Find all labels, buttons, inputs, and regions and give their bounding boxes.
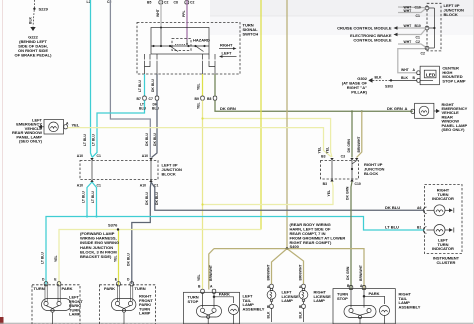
svg-text:C8: C8 (174, 0, 178, 4)
svg-text:DK BLU: DK BLU (155, 192, 159, 205)
svg-text:C10: C10 (415, 5, 421, 9)
svg-text:C3: C3 (341, 155, 345, 159)
faint top-right window band (210, 0, 474, 16)
svg-text:B7: B7 (137, 97, 141, 101)
wire LT BLU block to bus (right) (92, 182, 97, 217)
node yel tail junction (201, 203, 203, 205)
contact rail (151, 45, 209, 47)
svg-text:BLK: BLK (401, 76, 409, 80)
svg-text:LT BLU: LT BLU (41, 252, 45, 264)
svg-text:WHT: WHT (404, 40, 413, 44)
svg-text:C1: C1 (97, 184, 101, 188)
instrument cluster (425, 185, 463, 254)
right I/P junction block (321, 161, 359, 180)
svg-text:LT BLU: LT BLU (82, 191, 86, 203)
svg-text:YEL: YEL (327, 190, 331, 197)
svg-text:BLK: BLK (375, 76, 383, 80)
svg-text:RIGHT: RIGHT (220, 43, 233, 48)
svg-text:INDICATOR: INDICATOR (432, 196, 454, 201)
switch lower contacts (145, 54, 216, 74)
wire DK BLU block to right front lamp (132, 182, 151, 284)
svg-text:LT BLU: LT BLU (83, 134, 87, 146)
svg-text:A10: A10 (77, 154, 83, 158)
svg-text:LAMP: LAMP (139, 311, 151, 316)
svg-text:TURN: TURN (135, 286, 146, 291)
connector C7 (155, 96, 159, 100)
wire WHT row C10 (398, 6, 425, 9)
svg-text:STOP LAMP: STOP LAMP (442, 78, 466, 83)
svg-text:WHT: WHT (156, 8, 160, 17)
bottom-left red mark (0, 317, 4, 324)
wire LT BLU to left junction block (92, 100, 145, 157)
svg-text:STOP: STOP (188, 299, 199, 304)
svg-text:LED: LED (426, 72, 436, 77)
turn signal switch box (137, 23, 240, 75)
connector B9 (201, 96, 205, 100)
svg-text:YEL: YEL (197, 274, 201, 281)
wire DK BLU block to instrument cluster (151, 182, 425, 210)
wire WHT/DK BLU from top to left junction block (110, 0, 150, 158)
svg-text:A6: A6 (417, 206, 421, 210)
svg-text:A10: A10 (140, 184, 146, 188)
wire YEL right front park drop (118, 230, 120, 286)
bottom window edge (0, 322, 474, 324)
svg-text:C2: C2 (190, 0, 194, 4)
svg-text:B3: B3 (323, 182, 327, 186)
wire DK GRN block to right tail lamp (351, 182, 352, 290)
wire DK BLU switch output (156, 74, 158, 96)
svg-text:B5: B5 (147, 0, 151, 4)
svg-text:DK GRN: DK GRN (220, 106, 236, 111)
svg-text:B1: B1 (417, 226, 421, 230)
svg-text:ASSEMBLY: ASSEMBLY (399, 304, 421, 309)
svg-text:HAZARD: HAZARD (193, 38, 210, 43)
node BRN/WHT drop (361, 110, 363, 112)
svg-text:B8: B8 (207, 97, 211, 101)
svg-text:PILLAR): PILLAR) (351, 90, 367, 95)
right emergency vehicle rear window panel lamp (415, 103, 434, 118)
svg-text:DK BLU: DK BLU (145, 192, 149, 205)
left turn indicator bulb (427, 229, 435, 231)
connector at cluster (right turn) (423, 207, 426, 214)
svg-text:PARK: PARK (104, 286, 115, 291)
svg-text:BLK: BLK (298, 311, 302, 319)
svg-text:CRUISE CONTROL MODULE: CRUISE CONTROL MODULE (337, 26, 392, 31)
wire BRN/WHT to right license lamp (287, 249, 304, 284)
svg-text:WHT: WHT (404, 24, 413, 28)
svg-text:A: A (405, 106, 408, 111)
ground G222 (30, 27, 35, 31)
node PPL end (186, 40, 188, 44)
svg-text:C10: C10 (355, 182, 361, 186)
splice S229 dashed lead from top (33, 0, 35, 8)
svg-text:BRN/WHT: BRN/WHT (298, 264, 302, 281)
splice S229 (33, 8, 35, 10)
splice S400 (286, 247, 289, 250)
svg-text:S303: S303 (385, 84, 393, 88)
node bus joints (86, 215, 88, 217)
pin B10 connector (425, 26, 429, 30)
svg-text:A10: A10 (142, 154, 148, 158)
wire BRN/WHT into right junction block (357, 111, 362, 157)
svg-text:TURN: TURN (34, 286, 45, 291)
wire YEL switch output (202, 74, 204, 96)
left page border line (2, 0, 4, 324)
svg-text:DK BLU: DK BLU (151, 79, 155, 92)
svg-text:BRN/WHT: BRN/WHT (266, 264, 270, 281)
svg-text:LEFT: LEFT (222, 51, 233, 56)
wire BLK to ground G222 (33, 10, 34, 27)
wire PPL into switch (186, 0, 188, 40)
wire LT BLU switch output (144, 74, 146, 96)
svg-text:DK BLU: DK BLU (385, 205, 400, 210)
wire YEL front park bus (59, 230, 261, 286)
svg-text:YEL: YEL (114, 255, 118, 262)
svg-text:YEL: YEL (326, 147, 330, 154)
wire BRN/WHT rear park bus (214, 249, 364, 290)
node WHT feed (160, 27, 162, 29)
svg-text:YEL: YEL (318, 147, 322, 154)
wire WHT row C1 upper (398, 9, 425, 13)
svg-text:LT BLU: LT BLU (92, 134, 96, 146)
junction block internal circuits (91, 161, 93, 180)
left I/P junction block (80, 161, 158, 180)
pin C10 connector (425, 6, 429, 10)
svg-text:DK GRN: DK GRN (387, 106, 403, 111)
wire YEL branch to right junction block (203, 119, 333, 158)
svg-text:DK BLU: DK BLU (153, 133, 157, 146)
wire BRN/WHT to left tail lamp (209, 249, 214, 290)
wire LT BLU from top (91, 0, 93, 157)
svg-text:C2: C2 (416, 40, 420, 44)
wire WHT to electronic brake control module (398, 30, 426, 35)
svg-text:OF BRAKE PEDAL): OF BRAKE PEDAL) (15, 53, 53, 58)
svg-text:PPL: PPL (182, 10, 186, 17)
svg-text:C2: C2 (164, 0, 168, 4)
wire DK GRN switch output (214, 74, 216, 96)
svg-text:LAMP: LAMP (282, 298, 294, 303)
connector B8 (213, 96, 217, 100)
connector B7 (143, 96, 147, 100)
connector A of lamp (64, 125, 68, 129)
wire BRN/WHT to left license lamp (272, 249, 288, 284)
wire BRN/WHT vertical from top to S400 (286, 0, 288, 249)
wire DK BLU to left junction block (152, 100, 158, 157)
wire WHT to cruise control module (398, 27, 426, 29)
svg-text:SWITCH: SWITCH (243, 32, 259, 37)
svg-text:S229: S229 (39, 6, 49, 11)
svg-text:BRACKET SIDE): BRACKET SIDE) (80, 254, 112, 259)
svg-text:PARK: PARK (62, 286, 73, 291)
svg-text:YEL: YEL (54, 255, 58, 262)
wire WHT row C2 (398, 44, 425, 47)
wire YEL bright vertical from top (front park feed) (260, 0, 262, 230)
svg-text:DK BLU: DK BLU (145, 133, 149, 146)
svg-text:B3: B3 (321, 155, 325, 159)
svg-text:STOP: STOP (337, 296, 348, 301)
svg-text:C1: C1 (97, 154, 101, 158)
left emergency vehicle rear window panel lamp (44, 120, 64, 135)
right turn indicator bulb (427, 209, 435, 211)
svg-text:C7: C7 (149, 97, 153, 101)
svg-text:INDICATOR: INDICATOR (432, 246, 454, 251)
switch wiper arms (170, 46, 178, 52)
svg-text:DK GRN: DK GRN (346, 186, 350, 200)
svg-text:WHT: WHT (404, 9, 413, 13)
svg-text:(SEO ONLY): (SEO ONLY) (19, 139, 43, 144)
svg-text:LAMP: LAMP (69, 312, 81, 317)
node DK GRN drop 1 (351, 110, 353, 112)
switch contact carrier (151, 28, 209, 55)
svg-text:BLOCK: BLOCK (444, 12, 458, 17)
svg-text:PARK: PARK (219, 292, 230, 297)
svg-text:PARK: PARK (369, 291, 380, 296)
connector A right emergency lamp (411, 109, 415, 113)
wire LT BLU main bus to cluster (46, 217, 425, 286)
svg-text:LT BLU: LT BLU (91, 191, 95, 203)
svg-text:(SEO ONLY): (SEO ONLY) (442, 127, 466, 132)
svg-text:DK GRN: DK GRN (346, 266, 350, 280)
left I/P junction block (upper right) (427, 3, 441, 51)
svg-text:WHT: WHT (401, 68, 410, 72)
svg-text:LAMP: LAMP (314, 298, 326, 303)
svg-text:BLU: BLU (139, 107, 147, 111)
wire BLK dashed to splice S303 (373, 79, 391, 81)
svg-text:BRN/WHT: BRN/WHT (357, 136, 361, 153)
wire WHT into switch (160, 0, 162, 28)
wire YEL left-rear turn (long vertical) (202, 100, 204, 289)
right window edge (473, 0, 474, 324)
svg-text:BRN/WHT: BRN/WHT (359, 264, 363, 281)
hazard contact dashes (175, 44, 186, 46)
wire BLK to stop lamp (391, 79, 417, 81)
svg-text:S376: S376 (108, 222, 118, 227)
svg-text:LT BLU: LT BLU (138, 80, 142, 92)
bottom pins (90, 180, 93, 183)
splice S376 (117, 228, 119, 230)
svg-text:YEL: YEL (197, 83, 201, 90)
svg-text:YEL: YEL (72, 122, 80, 127)
svg-text:C1: C1 (416, 14, 420, 18)
splice S303 (390, 79, 392, 81)
svg-text:B9: B9 (195, 97, 199, 101)
wire YEL from lamp to right junction block (67, 128, 331, 157)
wire YEL tail feed from right junction block (203, 181, 334, 205)
svg-text:C2: C2 (421, 52, 425, 56)
svg-text:DK BLU: DK BLU (127, 253, 131, 266)
contact dots (152, 45, 154, 47)
svg-text:A10: A10 (77, 184, 83, 188)
svg-text:ASSEMBLY: ASSEMBLY (243, 306, 265, 311)
svg-text:YEL: YEL (197, 102, 201, 109)
svg-text:CLUSTER: CLUSTER (437, 260, 456, 265)
svg-text:LT BLU: LT BLU (385, 225, 399, 230)
wire WHT from junction block to stop lamp (398, 49, 427, 73)
svg-text:C1: C1 (416, 36, 420, 40)
svg-text:BLK: BLK (266, 311, 270, 319)
connector pins of stop lamp (417, 71, 420, 75)
svg-text:B10: B10 (415, 24, 421, 28)
wire DK GRN into right junction block (351, 111, 353, 157)
svg-text:BLK: BLK (29, 16, 33, 24)
hazard switch box (172, 39, 191, 51)
svg-text:BLU: BLU (152, 107, 160, 111)
center high mounted stop lamp (420, 66, 439, 85)
wire DK GRN to right side (215, 100, 413, 111)
connector at cluster (left turn) (423, 227, 426, 234)
svg-text:BLOCK: BLOCK (364, 171, 378, 176)
svg-text:BLOCK: BLOCK (162, 172, 176, 177)
wire LT BLU block to bus (left) (87, 182, 92, 217)
node yel branch (201, 117, 203, 119)
svg-text:BRN/WHT: BRN/WHT (209, 264, 213, 281)
svg-text:DK GRN: DK GRN (347, 139, 351, 153)
pin C2 connector (425, 46, 429, 50)
svg-text:CONTROL MODULE: CONTROL MODULE (353, 38, 391, 43)
